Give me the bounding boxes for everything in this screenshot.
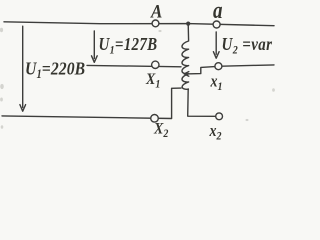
sliding contact arrowhead — [184, 72, 189, 77]
sliding tap wire from winding to x1 — [186, 67, 215, 74]
svg-text:A: A — [150, 1, 162, 22]
arrow U1=127V — [93, 31, 95, 59]
terminal X2 — [151, 115, 159, 123]
wire x1 to right edge — [222, 65, 274, 66]
terminal a — [213, 21, 220, 28]
svg-text:a: a — [213, 0, 223, 24]
wire middle bus to X1 tap — [87, 65, 181, 66]
terminal x2 — [216, 113, 223, 120]
terminal X1 — [152, 61, 159, 68]
paper background — [0, 0, 276, 141]
svg-text:U1=127В: U1=127В — [99, 34, 158, 57]
junction dot top bus / winding — [186, 22, 190, 26]
autotransformer winding L1 — [182, 24, 189, 90]
svg-text:U1=220В: U1=220В — [25, 58, 85, 81]
terminal A — [152, 20, 159, 27]
wire top bus A-a — [4, 22, 274, 26]
terminal x1 — [215, 63, 222, 70]
arrow U2=var — [215, 32, 217, 54]
winding bottom lead down to x2 — [188, 89, 216, 116]
svg-text:U2 =var: U2 =var — [222, 34, 273, 57]
wire bottom bus to X2 and up to winding bottom — [2, 88, 181, 118]
arrow U1=220V — [22, 26, 24, 107]
scan smudges — [0, 28, 275, 129]
